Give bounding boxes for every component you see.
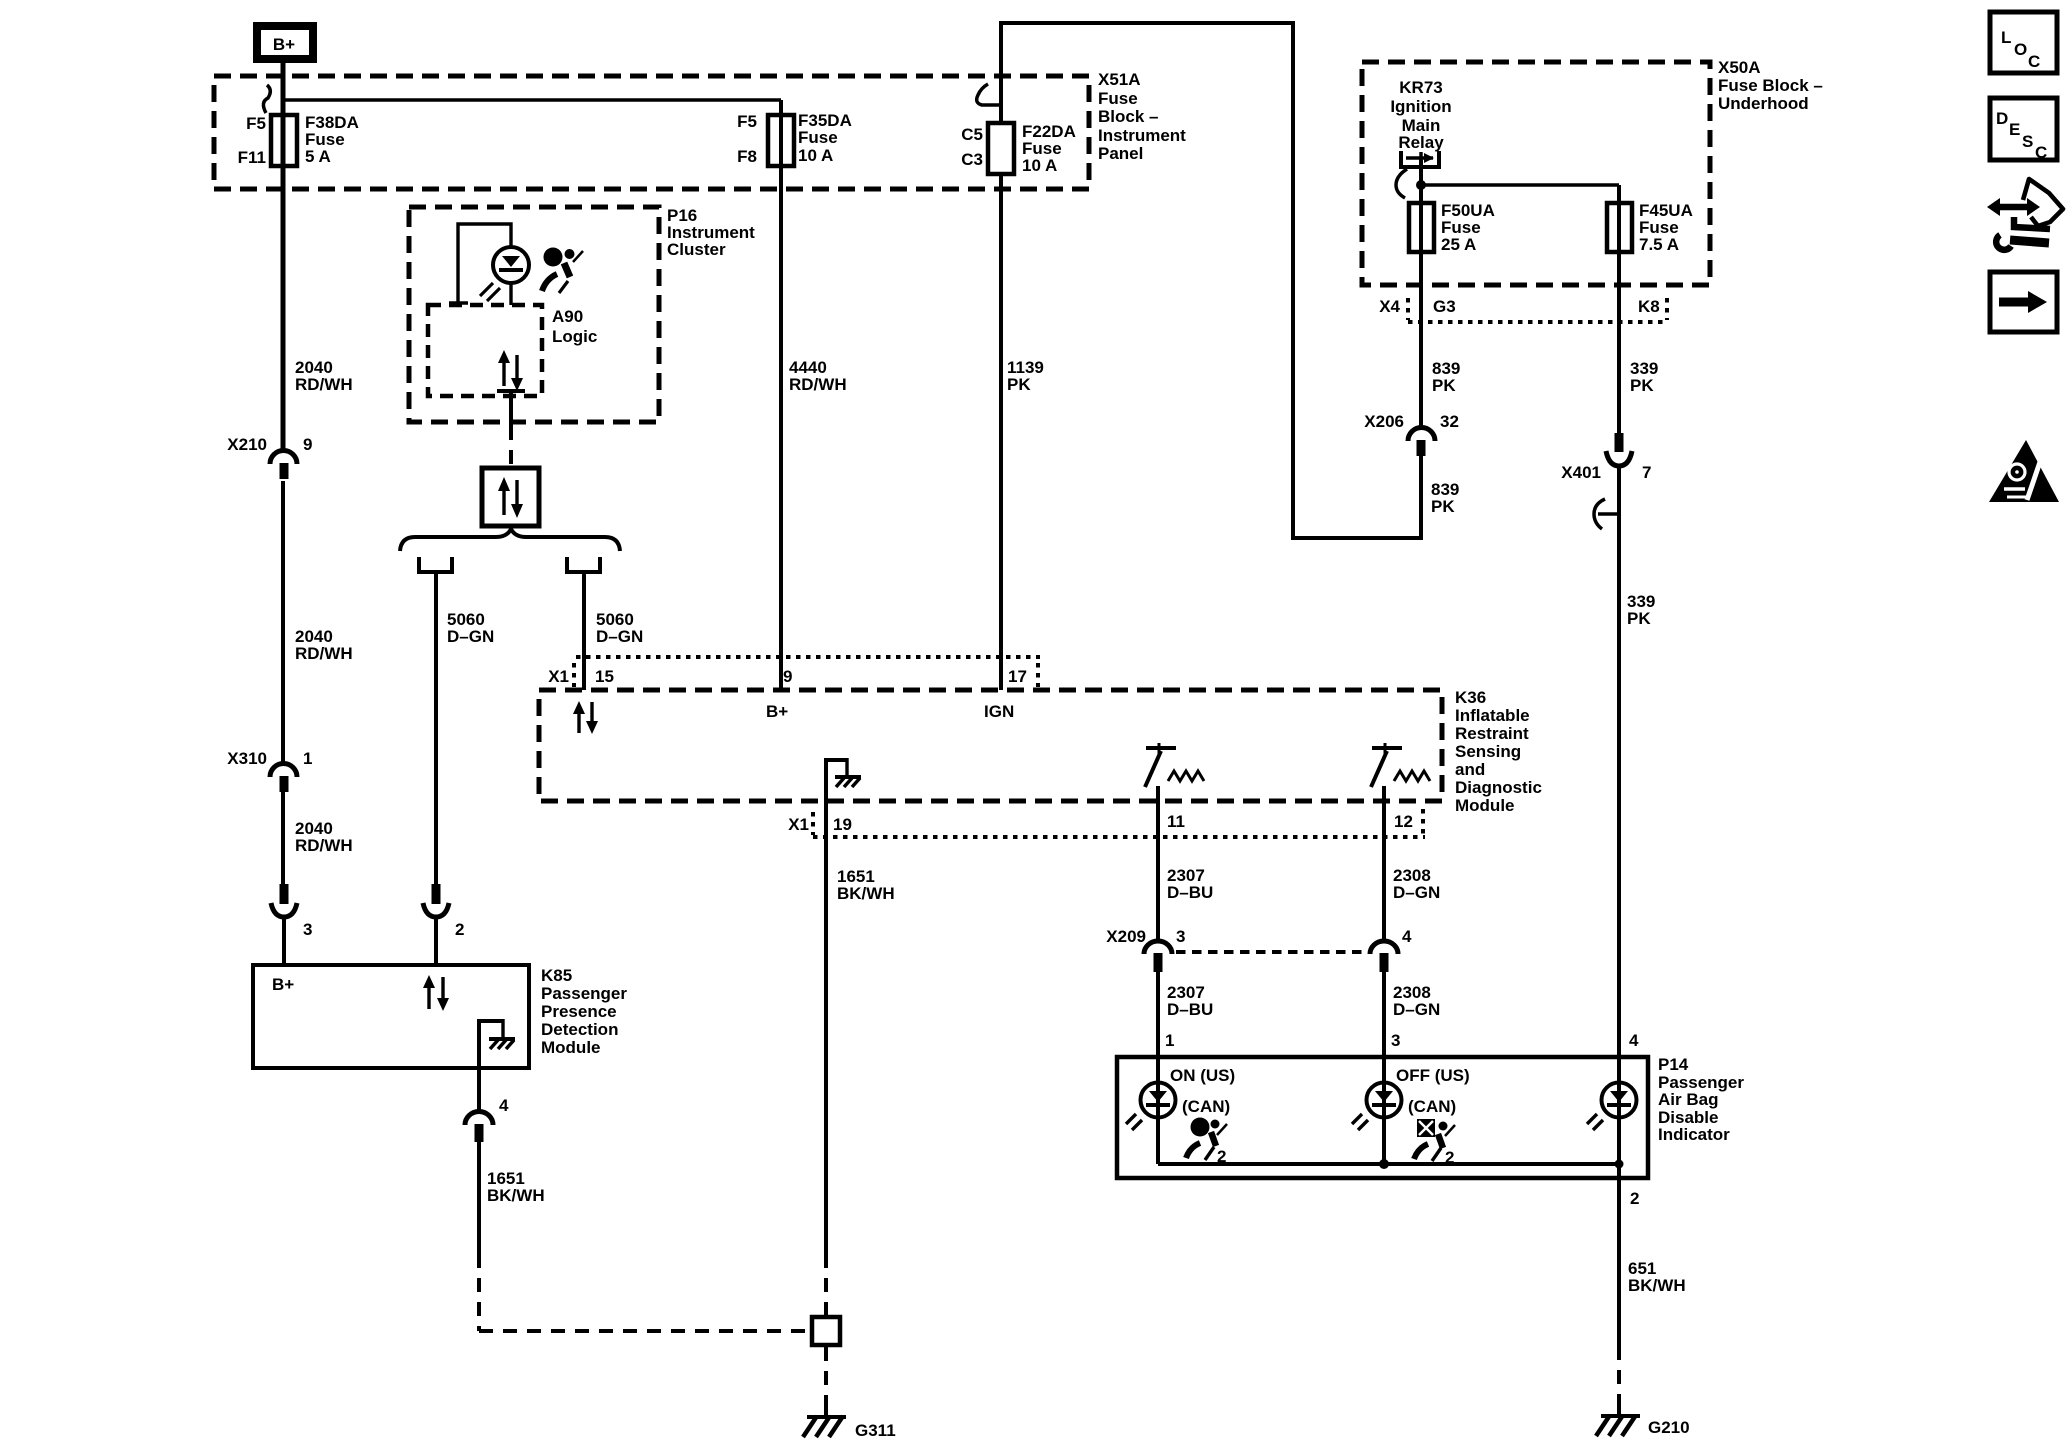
indicator common bus bbox=[1158, 1159, 1624, 1169]
svg-text:X310: X310 bbox=[227, 749, 267, 768]
svg-text:Instrument: Instrument bbox=[1098, 126, 1186, 145]
svg-text:Logic: Logic bbox=[552, 327, 597, 346]
svg-text:X51A: X51A bbox=[1098, 70, 1141, 89]
svg-text:X209: X209 bbox=[1106, 927, 1146, 946]
svg-text:BK/WH: BK/WH bbox=[1628, 1276, 1686, 1295]
LED indicator right (pin 4) bbox=[1587, 1083, 1637, 1165]
K36 label bbox=[1455, 688, 1542, 815]
X1 connector row pins 15/9/17 bbox=[548, 657, 1040, 721]
svg-text:Cluster: Cluster bbox=[667, 240, 726, 259]
connector at K85 pin 3 bbox=[271, 884, 312, 965]
svg-text:Underhood: Underhood bbox=[1718, 94, 1809, 113]
wire relay to F50UA bbox=[1419, 159, 1423, 428]
svg-text:Block –: Block – bbox=[1098, 107, 1158, 126]
svg-text:PK: PK bbox=[1627, 609, 1651, 628]
svg-text:C: C bbox=[2028, 52, 2040, 71]
wire K36 pin 12 to X209 bbox=[1382, 786, 1386, 942]
fuse block X51A dashed box bbox=[214, 76, 1089, 189]
svg-text:15: 15 bbox=[595, 667, 614, 686]
wire 1651 BK/WH from K36 X1-19 bbox=[826, 800, 895, 1315]
svg-text:X401: X401 bbox=[1561, 463, 1601, 482]
svg-text:X50A: X50A bbox=[1718, 58, 1761, 77]
fuse F38DA bbox=[238, 113, 359, 167]
junction dot relay branch bbox=[1416, 180, 1426, 190]
wire 1651 BK/WH from K85 bbox=[479, 1142, 808, 1331]
svg-text:Relay: Relay bbox=[1398, 133, 1444, 152]
bus hook below relay bbox=[1396, 169, 1407, 198]
svg-text:PK: PK bbox=[1432, 376, 1456, 395]
svg-text:9: 9 bbox=[303, 435, 312, 454]
X50A label bbox=[1718, 58, 1823, 113]
svg-text:Module: Module bbox=[1455, 796, 1515, 815]
svg-text:1: 1 bbox=[303, 749, 312, 768]
wire fuse F35DA branch down to K36 pin 9 bbox=[779, 100, 783, 690]
svg-text:K8: K8 bbox=[1638, 297, 1660, 316]
svg-text:D–GN: D–GN bbox=[447, 627, 494, 646]
svg-text:PK: PK bbox=[1007, 375, 1031, 394]
ground G210 bbox=[1596, 1408, 1690, 1437]
LED indicator ON bbox=[1126, 1057, 1235, 1164]
svg-text:Passenger: Passenger bbox=[541, 984, 627, 1003]
inflatable restraint module K36 dashed box bbox=[539, 690, 1442, 801]
sidebar LOC box bbox=[1990, 12, 2057, 73]
svg-text:C5: C5 bbox=[961, 125, 983, 144]
svg-text:Fuse: Fuse bbox=[798, 128, 838, 147]
P14 pin labels bbox=[1165, 1031, 1639, 1050]
svg-text:D–GN: D–GN bbox=[1393, 1000, 1440, 1019]
logic block A90 dashed box bbox=[428, 305, 542, 396]
svg-text:L: L bbox=[2001, 28, 2011, 47]
svg-text:IGN: IGN bbox=[984, 702, 1014, 721]
svg-text:OFF (US): OFF (US) bbox=[1396, 1066, 1470, 1085]
wire K36 pin 11 to X209 bbox=[1156, 786, 1160, 942]
relay KR73 contact bbox=[1399, 151, 1441, 169]
module K85 box bbox=[253, 965, 529, 1068]
svg-text:11: 11 bbox=[1167, 812, 1185, 831]
KR73 label bbox=[1390, 78, 1451, 152]
airbag icon OFF (crossed) bbox=[1414, 1119, 1455, 1167]
X1 connector row pins 19/11/12 bbox=[788, 809, 1425, 837]
svg-text:(CAN): (CAN) bbox=[1182, 1097, 1230, 1116]
svg-text:B+: B+ bbox=[273, 35, 295, 54]
indicator P14 box bbox=[1117, 1057, 1648, 1178]
svg-text:S: S bbox=[2022, 132, 2033, 151]
svg-text:P14: P14 bbox=[1658, 1055, 1689, 1074]
K85 internal ground bbox=[477, 1019, 515, 1068]
fuse F22DA bbox=[961, 122, 1076, 175]
svg-text:Fuse Block –: Fuse Block – bbox=[1718, 76, 1823, 95]
wire X209-4 to P14 pin 3 bbox=[1382, 972, 1386, 1057]
svg-text:Inflatable: Inflatable bbox=[1455, 706, 1530, 725]
svg-text:PK: PK bbox=[1630, 376, 1654, 395]
wire X401 to P14 pin 4 bbox=[1617, 466, 1621, 1083]
svg-text:19: 19 bbox=[833, 815, 852, 834]
svg-text:3: 3 bbox=[303, 920, 312, 939]
svg-text:RD/WH: RD/WH bbox=[789, 375, 847, 394]
connector X310 bbox=[227, 749, 312, 792]
dashed link to serial data box bbox=[509, 426, 513, 468]
K85 pin 4 connector bbox=[465, 1068, 509, 1142]
wire X310 to K85 pin 3 bbox=[281, 792, 285, 886]
svg-text:3: 3 bbox=[1391, 1031, 1400, 1050]
K36 serial data arrows bbox=[573, 701, 598, 734]
sidebar service icon bbox=[1987, 179, 2063, 250]
svg-text:B+: B+ bbox=[766, 702, 788, 721]
svg-text:17: 17 bbox=[1008, 667, 1027, 686]
svg-text:G210: G210 bbox=[1648, 1418, 1690, 1437]
svg-text:4: 4 bbox=[499, 1096, 509, 1115]
ground G311 bbox=[803, 1408, 896, 1440]
svg-text:RD/WH: RD/WH bbox=[295, 644, 353, 663]
terminal cup left (to K85 pin 2) bbox=[419, 557, 452, 572]
svg-text:Fuse: Fuse bbox=[1098, 89, 1138, 108]
A90 serial data arrows bbox=[498, 350, 523, 391]
fuse block internal bus wire bbox=[283, 98, 781, 101]
K85 label bbox=[541, 966, 627, 1057]
A90 label bbox=[552, 307, 597, 346]
svg-text:BK/WH: BK/WH bbox=[837, 884, 895, 903]
wire 5060 D-GN right bbox=[582, 572, 586, 690]
svg-text:Restraint: Restraint bbox=[1455, 724, 1529, 743]
airbag indicator LED bbox=[480, 247, 529, 305]
svg-text:K36: K36 bbox=[1455, 688, 1486, 707]
svg-text:Panel: Panel bbox=[1098, 144, 1143, 163]
svg-text:F5: F5 bbox=[737, 112, 757, 131]
ignition feed loop wire (839 PK to F22DA) bbox=[1001, 23, 1421, 538]
fuse F50UA bbox=[1409, 201, 1495, 254]
svg-text:PK: PK bbox=[1431, 497, 1455, 516]
svg-text:7.5 A: 7.5 A bbox=[1639, 235, 1679, 254]
K36 driver switch pin 12 bbox=[1371, 743, 1430, 787]
svg-text:X1: X1 bbox=[548, 667, 569, 686]
svg-text:K85: K85 bbox=[541, 966, 572, 985]
connector X206 bbox=[1364, 412, 1459, 456]
svg-text:10 A: 10 A bbox=[1022, 156, 1057, 175]
svg-text:ON (US): ON (US) bbox=[1170, 1066, 1235, 1085]
svg-text:D–GN: D–GN bbox=[1393, 883, 1440, 902]
svg-text:D–BU: D–BU bbox=[1167, 883, 1213, 902]
svg-text:G311: G311 bbox=[855, 1421, 896, 1440]
svg-text:BK/WH: BK/WH bbox=[487, 1186, 545, 1205]
svg-text:C3: C3 bbox=[961, 150, 983, 169]
svg-text:B+: B+ bbox=[272, 975, 294, 994]
terminal cup right (to K36 pin 15) bbox=[567, 557, 600, 572]
connector X209 bbox=[1106, 927, 1412, 972]
svg-text:KR73: KR73 bbox=[1399, 78, 1442, 97]
K85 serial data arrows bbox=[423, 975, 449, 1011]
svg-text:A90: A90 bbox=[552, 307, 583, 326]
indicator feed wire inside P16 bbox=[449, 224, 511, 303]
P14 label bbox=[1658, 1055, 1744, 1144]
B+ power terminal bbox=[257, 26, 313, 59]
svg-text:12: 12 bbox=[1394, 812, 1413, 831]
airbag warning icon (cluster) bbox=[542, 248, 583, 294]
svg-text:F11: F11 bbox=[238, 148, 266, 167]
svg-text:X1: X1 bbox=[788, 815, 809, 834]
svg-text:7: 7 bbox=[1642, 463, 1651, 482]
svg-text:10 A: 10 A bbox=[798, 146, 833, 165]
svg-text:1: 1 bbox=[1165, 1031, 1174, 1050]
connector at K85 pin 2 bbox=[423, 884, 464, 965]
fuse block X50A dashed box bbox=[1362, 62, 1710, 285]
svg-text:F5: F5 bbox=[246, 114, 266, 133]
fuse F45UA bbox=[1607, 185, 1693, 433]
svg-text:Detection: Detection bbox=[541, 1020, 618, 1039]
sidebar next page box bbox=[1990, 272, 2057, 332]
LED indicator OFF bbox=[1352, 1057, 1470, 1164]
svg-text:Presence: Presence bbox=[541, 1002, 617, 1021]
P16 label bbox=[667, 206, 755, 259]
svg-text:Sensing: Sensing bbox=[1455, 742, 1521, 761]
bus hook at F22DA bbox=[977, 84, 1000, 105]
wire 5060 D-GN left bbox=[434, 572, 438, 886]
svg-text:(CAN): (CAN) bbox=[1408, 1097, 1456, 1116]
branch wire to F45UA bbox=[1421, 183, 1619, 186]
airbag icon ON bbox=[1186, 1118, 1227, 1167]
svg-text:Module: Module bbox=[541, 1038, 601, 1057]
svg-text:Indicator: Indicator bbox=[1658, 1125, 1730, 1144]
svg-text:D–GN: D–GN bbox=[596, 627, 643, 646]
svg-text:Ignition: Ignition bbox=[1390, 97, 1451, 116]
svg-text:Diagnostic: Diagnostic bbox=[1455, 778, 1542, 797]
svg-text:D: D bbox=[1996, 109, 2008, 128]
svg-text:X210: X210 bbox=[227, 435, 267, 454]
svg-text:32: 32 bbox=[1440, 412, 1459, 431]
svg-text:3: 3 bbox=[1176, 927, 1185, 946]
serial data symbol box bbox=[482, 468, 539, 526]
svg-text:4: 4 bbox=[1629, 1031, 1639, 1050]
svg-text:X206: X206 bbox=[1364, 412, 1404, 431]
X51A fuse block label bbox=[1098, 70, 1186, 163]
svg-text:X4: X4 bbox=[1379, 297, 1400, 316]
svg-text:Air Bag: Air Bag bbox=[1658, 1090, 1718, 1109]
wire 651 BK/WH bbox=[1619, 1164, 1686, 1412]
wire F22DA down to K36 pin 17 bbox=[999, 174, 1003, 690]
svg-text:G3: G3 bbox=[1433, 297, 1456, 316]
K36 driver switch pin 11 bbox=[1145, 743, 1204, 787]
svg-text:RD/WH: RD/WH bbox=[295, 375, 353, 394]
connector X401 bbox=[1561, 433, 1651, 529]
wire X210 to X310 bbox=[281, 481, 285, 764]
sidebar DESC box bbox=[1990, 98, 2057, 162]
K36 internal ground bbox=[824, 758, 861, 801]
splice bbox=[812, 1317, 840, 1345]
svg-text:2: 2 bbox=[1630, 1189, 1639, 1208]
dashed wire splice to G311 bbox=[824, 1347, 828, 1412]
svg-text:9: 9 bbox=[783, 667, 792, 686]
svg-text:4: 4 bbox=[1402, 927, 1412, 946]
svg-text:F8: F8 bbox=[737, 147, 757, 166]
svg-text:RD/WH: RD/WH bbox=[295, 836, 353, 855]
bus hook at F38DA bbox=[263, 85, 270, 113]
X4 connector row bbox=[1379, 297, 1667, 322]
svg-text:5 A: 5 A bbox=[305, 147, 331, 166]
instrument cluster P16 dashed box bbox=[409, 207, 659, 422]
svg-text:25 A: 25 A bbox=[1441, 235, 1476, 254]
wire X209-3 to P14 pin 1 bbox=[1156, 972, 1160, 1057]
connector X210 bbox=[227, 435, 312, 479]
svg-text:2: 2 bbox=[455, 920, 464, 939]
connector brace bbox=[400, 529, 620, 551]
svg-text:D–BU: D–BU bbox=[1167, 1000, 1213, 1019]
svg-text:O: O bbox=[2014, 40, 2027, 59]
wire B+ feed down to X210 bbox=[281, 59, 286, 453]
svg-text:E: E bbox=[2009, 120, 2020, 139]
svg-text:and: and bbox=[1455, 760, 1485, 779]
sidebar airbag warning triangle bbox=[1989, 440, 2059, 502]
svg-text:C: C bbox=[2035, 143, 2047, 162]
fuse F35DA bbox=[737, 111, 852, 166]
A90 output terminal bbox=[497, 391, 525, 426]
